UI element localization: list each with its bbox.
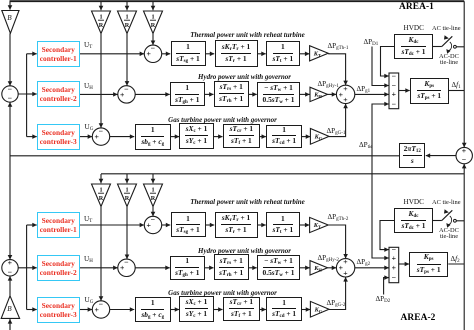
gain 1/R1 droop (feeds gas unit) area2 [92,184,111,207]
block power system Kps/(sTps+1) area1 [410,78,449,104]
wire: gas valve to fuel area1 [214,136,223,138]
wire: hydro summer to governor area2 [135,267,170,269]
title hydro unit area1 [198,73,291,81]
wire: gas fuel to compressor area1 [260,136,266,138]
wire: dPD2 load disturbance to summer [384,278,389,295]
svg-text:−: − [392,99,397,108]
gain B2 frequency bias area2 [1,296,19,319]
wire: Df1 drop to droop 1/R thermal area1 [152,2,154,11]
wire: dPg1 to generation-load summer [355,93,389,95]
node Df2 [451,255,460,264]
node U_G area2 [85,296,94,305]
block HVDC link Kdc/(sTdc+1) area2 [394,208,433,233]
controller: secondary controller-2 area2 [37,255,80,281]
title gas unit area1 [168,116,277,124]
summing junction tie-line Df1-Df2 [456,146,472,164]
wire: gas governor to valve area1 [171,136,179,138]
block reheat turbine (sKrTr+1)/(sTr+1) area1 [215,40,258,66]
wire: hydro penstock to gain KH area2 [300,267,310,269]
wire: Df2 drop to droop gas area2 [100,174,102,183]
wire: Df1 drop to droop 1/R gas area1 [100,2,102,11]
summing junction thermal input area1 [144,44,161,63]
wire: controller-3 output U_G area2 [80,309,93,311]
svg-text:−: − [392,81,397,90]
wire: summer to power system Kps2 [399,263,409,265]
node dPgTh-1 [328,42,349,51]
wire: Kps1 output Df1 [449,90,465,92]
label AREA-1 [399,2,434,12]
wire: controller-2 output U_H area1 [80,93,118,95]
label AC tie-line area1 [432,25,461,32]
node U_T area1 [84,41,92,50]
svg-text:R: R [125,195,130,202]
gain KT thermal area1 [310,46,329,61]
label HVDC area2 [404,198,424,206]
block penstock (-sTw+1)/(0.5sTw+1) area2 [257,255,300,280]
wire: gas fuel to compressor area2 [260,309,266,311]
wire: gas summer to governor area2 [110,309,135,311]
svg-text:+: + [120,90,125,99]
block hydro governor 1/(sTgh+1) area2 [170,256,205,280]
node dPtie [359,141,373,150]
wire: thermal governor to reheat area1 [206,53,215,55]
node U_H area1 [84,82,93,91]
wire: Df2 drop to droop hydro area2 [126,174,128,183]
block gas compressor 1/(sTcd+1) area2 [266,297,302,320]
wire: dPtie to area1 summer [372,104,389,156]
gain B1 frequency bias area1 [2,11,19,34]
wire: thermal summer to governor area1 [162,53,171,55]
svg-text:R: R [151,22,156,29]
wire: ACE1 branch to controller-2 [27,93,37,95]
block gas governor 1/(sbg+cg) area1 [135,124,172,150]
wire: dPtie to area2 summer [372,156,389,258]
controller: secondary controller-2 area1 [37,81,80,107]
svg-text:−: − [462,155,467,164]
wire: Kps2 output Df2 [448,263,464,265]
gain KT thermal area2 [310,217,329,232]
wire: dPtie vertical to ACE1 (up) [9,102,11,155]
summing block generation-load area2 [389,245,399,283]
gain KH hydro area1 [310,87,328,101]
summing junction thermal input area2 [144,215,161,234]
wire: controller-2 output U_H area2 [80,267,118,269]
gain KH hydro area2 [310,261,328,275]
label AREA-2 [401,313,436,323]
summing junction gas input area2 [92,299,109,318]
wire: dPg2 to generation-load summer [355,267,389,269]
wire: ACE1 branch to controller-3 [27,136,37,138]
wire: Df1 feedback vertical [463,1,465,147]
wire: droop to gas summer area2 [100,207,102,301]
wire: gas valve to fuel area2 [214,309,223,311]
wire: KG output dPgG-1 to dPg1 summer [329,104,346,137]
node U_G area1 [85,123,94,132]
node dPgTh-2 [328,213,349,222]
summing junction gas input area1 [92,127,109,146]
summing junction hydro input area1 [118,84,135,103]
block HVDC link Kdc/(sTdc+1) area1 [394,34,433,59]
wire: HVDC1 output to summer [381,47,395,77]
controller: secondary controller-1 area2 [37,212,80,238]
svg-text:+: + [8,258,13,267]
summing junction ACE1 area1 [2,84,18,102]
wire: KT output dPgTh-1 to dPg1 summer [328,54,345,85]
wire: droop to thermal summer area1 [152,34,154,45]
wire: Df1 drop to droop 1/R hydro area1 [126,2,128,11]
wire: gas governor to valve area2 [171,309,179,311]
label B area2 [7,305,11,313]
node Df1 [452,81,461,90]
wire: droop to hydro summer area2 [126,207,128,259]
wire: dPD1 load disturbance to summer [372,47,389,86]
label B area1 [7,14,11,22]
wire: hydro droop to penstock area1 [249,93,257,95]
node dPgHy-1 [318,80,339,89]
node dPg1 [357,85,371,94]
title thermal unit area1 [190,31,305,39]
svg-text:+: + [343,95,348,104]
title hydro unit area2 [198,247,291,255]
block gas valve (sXc+1)/(sYc+1) area1 [179,123,213,149]
wire: dPtie vertical to ACE2 (down) [9,156,11,260]
block hydro governor 1/(sTgh+1) area1 [170,82,205,106]
wire: thermal reheat to turbine area2 [258,224,266,226]
svg-text:+: + [462,146,467,155]
controller: secondary controller-1 area1 [37,41,80,67]
title thermal unit area2 [190,198,305,206]
svg-text:−: − [99,299,104,308]
wire: KT output dPgTh-2 to dPg2 summer [328,225,345,258]
svg-text:R: R [151,195,156,202]
wire: controller-3 output U_G area1 [80,136,93,138]
wire: Df1 drop to bias B1 [9,2,11,10]
wire: dPtie line from block to left column [10,155,400,157]
summing junction hydro input area2 [118,258,135,277]
block hydro droop (sTrs+1)/(sTrh+1) area2 [214,254,249,280]
svg-text:1: 1 [125,186,128,193]
label AC-DC tie-line area2 [439,228,459,241]
gain 1/R3 droop (feeds thermal unit) area2 [144,184,163,207]
wire: hydro droop to penstock area2 [249,267,257,269]
controller: secondary controller-3 area2 [37,297,80,323]
wire: ACE2 branch to controller-3 area2 [27,309,37,311]
node dPg2 [357,258,371,267]
gain KG gas area1 [310,129,329,145]
block reheat turbine (sKrTr+1)/(sTr+1) area2 [215,212,258,238]
label AC-DC tie-line area1 [439,54,459,67]
block steam turbine 1/(sTt+1) area1 [266,41,300,66]
wire: hydro governor to transient droop area1 [205,93,214,95]
gain KG gas area2 [310,301,329,317]
svg-text:−: − [8,267,13,276]
svg-text:+: + [95,132,100,141]
node U_H area2 [84,255,93,264]
svg-text:R: R [125,22,130,29]
svg-text:R: R [99,195,104,202]
wire: thermal summer to governor area2 [162,224,171,226]
svg-text:−: − [124,84,129,93]
svg-text:1: 1 [151,186,154,193]
svg-text:+: + [392,263,397,272]
wire: B1 output to ACE1 summing junction [9,33,11,85]
summing junction dPg1 area1 [336,84,354,104]
svg-text:−: − [8,84,13,93]
wire: HVDC2 output to summer [380,221,394,250]
wire: Df2 branch line to droops area2 [101,173,464,175]
block gas compressor 1/(sTcd+1) area1 [266,125,302,148]
block penstock (-sTw+1)/(0.5sTw+1) area1 [257,82,300,107]
svg-text:+: + [120,263,125,272]
gain 1/R2 droop (feeds hydro unit) area1 [118,11,137,34]
svg-text:+: + [343,257,348,266]
wire: droop to hydro summer area1 [126,34,128,86]
wire: ACE2 branch to controller-2 area2 [27,267,37,269]
svg-text:−: − [8,94,13,103]
wire: summer to power system Kps1 [399,90,410,92]
switch AC / AC-DC tie-line area2 [433,209,464,228]
svg-text:+: + [147,49,152,58]
summing junction dPg2 area2 [336,257,354,277]
svg-text:1: 1 [99,186,102,193]
wire: hydro penstock to gain KH area1 [300,93,310,95]
svg-text:−: − [124,258,129,267]
wire: hydro governor to transient droop area2 [205,267,214,269]
svg-text:−: − [392,71,397,80]
controller: secondary controller-3 area1 [37,124,80,150]
wire: droop to thermal summer area2 [152,207,154,217]
wire: gas compressor to gain KG area1 [302,136,310,138]
svg-text:+: + [392,253,397,262]
block gas valve (sXc+1)/(sYc+1) area2 [179,296,213,322]
wire: tie summer to 2piT12 block [426,155,456,157]
svg-text:+: + [147,220,152,229]
wire: droop to gas summer area1 [100,34,102,128]
block tie-line 2piT12/s [399,143,425,169]
wire: Df2 bottom line to B2 input [9,319,11,330]
wire: hydro summer to governor area1 [135,93,170,95]
node dPD1 load disturbance area1 [364,38,379,47]
svg-text:1: 1 [151,13,154,20]
node U_T area2 [84,215,92,224]
svg-text:−: − [99,127,104,136]
svg-text:−: − [392,273,397,282]
svg-text:+: + [343,268,348,277]
wire: KH output dPgHy-1 to dPg1 summer [328,93,337,95]
wire: ACE1 branch to controller-1 [27,53,37,55]
wire: KH output dPgHy-2 to dPg2 summer [328,267,337,269]
summing junction ACE2 area2 [2,258,18,276]
gain 1/R2 droop (feeds hydro unit) area2 [118,184,137,207]
wire: Df2 feedback vertical [463,164,465,330]
summing block generation-load area1 [389,71,399,108]
svg-text:R: R [99,22,104,29]
svg-text:1: 1 [125,13,128,20]
wire: ACE1 to secondary controllers area1 [18,54,26,137]
node dPgHy-2 [318,254,339,263]
wire: ACE2 branch to controller-1 area2 [27,224,37,226]
wire: KG output dPgG-2 to dPg2 summer [329,277,346,309]
wire: controller-1 output U_T area2 [80,224,145,226]
block gas fuel (sTcr+1)/(sTf+1) area1 [223,124,260,148]
svg-text:−: − [151,44,156,53]
wire: thermal turbine to gain KT area1 [300,53,310,55]
wire: thermal turbine to gain KT area2 [300,224,310,226]
wire: Df1 feedback top line [10,0,465,2]
node dPgG-1 [327,127,346,136]
wire: Df2 bottom feedback line (cropped, left vertical) [9,319,11,330]
wire: ACE2 to secondary controllers area2 [18,225,26,310]
title gas unit area2 [168,289,277,297]
wire: gas compressor to gain KG area2 [302,309,310,311]
wire: Df2 drop to droop thermal area2 [152,174,154,183]
svg-text:−: − [151,215,156,224]
gain 1/R3 droop (feeds thermal unit) area1 [144,11,163,34]
block thermal governor 1/(sTsg+1) area2 [171,212,206,237]
block hydro droop (sTrs+1)/(sTrh+1) area1 [214,81,249,107]
svg-text:1: 1 [99,13,102,20]
label AC tie-line area2 [432,199,461,206]
switch AC / AC-DC tie-line area1 [433,35,464,54]
block thermal governor 1/(sTsg+1) area1 [171,41,206,66]
block gas fuel (sTcr+1)/(sTf+1) area2 [223,297,260,321]
node dPD2 load disturbance area2 [376,295,391,304]
svg-text:+: + [392,90,397,99]
wire: controller-1 output U_T area1 [80,53,145,55]
svg-text:+: + [95,305,100,314]
node dPgG-2 [327,299,346,308]
wire: B2 output to ACE2 summing junction [9,276,11,296]
wire: gas summer to governor area1 [110,136,135,138]
block power system Kps/(sTps+1) area2 [409,252,448,277]
block gas governor 1/(sbg+cg) area2 [135,297,172,323]
gain 1/R1 droop (feeds gas unit) area1 [92,11,111,34]
block steam turbine 1/(sTt+1) area2 [266,212,300,237]
wire: thermal reheat to turbine area1 [258,53,266,55]
label HVDC area1 [404,24,424,32]
svg-text:+: + [343,84,348,93]
wire: thermal governor to reheat area2 [206,224,215,226]
